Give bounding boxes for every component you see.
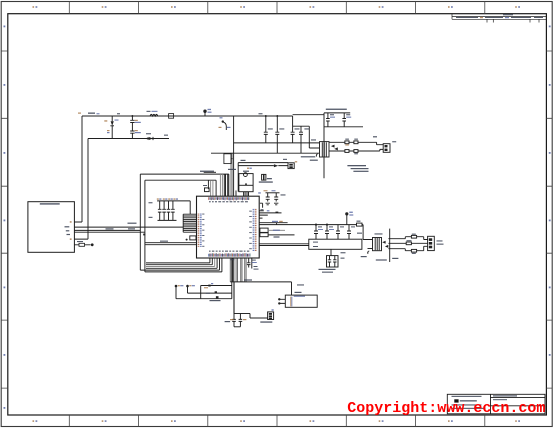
svg-text:Copyright:www.eccn.com: Copyright:www.eccn.com: [347, 400, 545, 417]
